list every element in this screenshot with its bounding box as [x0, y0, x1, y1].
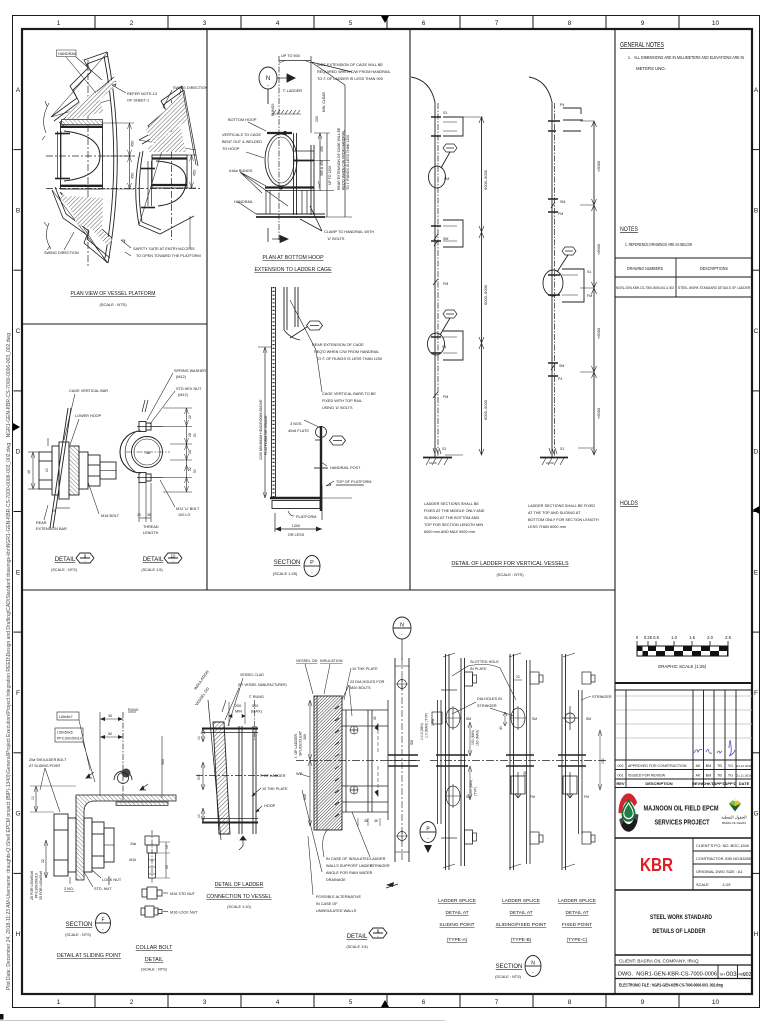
- svg-text:METERS UNO.: METERS UNO.: [636, 66, 666, 71]
- svg-text:FM: FM: [443, 282, 448, 286]
- svg-text:8: 8: [568, 999, 572, 1006]
- svg-text:SERVICES PROJECT: SERVICES PROJECT: [655, 818, 710, 827]
- svg-text:PLATFORM: PLATFORM: [296, 515, 316, 519]
- svg-text:35: 35: [147, 513, 151, 517]
- svg-text:22: 22: [516, 675, 520, 679]
- svg-text:(M12): (M12): [176, 375, 187, 379]
- svg-text:AT THE TOP AND SLIDING AT: AT THE TOP AND SLIDING AT: [528, 511, 581, 515]
- svg-text:20: 20: [52, 509, 56, 513]
- svg-text:22: 22: [188, 467, 192, 471]
- svg-text:CAGE VERTICAL BARS TO BE: CAGE VERTICAL BARS TO BE: [322, 392, 376, 396]
- svg-text:450: 450: [193, 170, 197, 176]
- svg-text:40: 40: [499, 726, 503, 730]
- svg-text:40: 40: [27, 470, 31, 474]
- svg-text:N: N: [531, 961, 535, 967]
- svg-text:DESCRIPTION: DESCRIPTION: [645, 781, 672, 786]
- svg-text:YG: YG: [728, 764, 733, 768]
- svg-text:9: 9: [641, 999, 645, 1006]
- svg-text:SAFETY GATE AT ENTRY/ACCESS: SAFETY GATE AT ENTRY/ACCESS: [133, 247, 195, 251]
- svg-text:6000–9000: 6000–9000: [483, 284, 488, 305]
- svg-text:G: G: [15, 811, 20, 818]
- svg-text:3: 3: [203, 20, 207, 27]
- svg-text:DETAIL: DETAIL: [55, 557, 76, 563]
- svg-text:STD. NUT: STD. NUT: [94, 887, 112, 891]
- svg-text:100 (MIN): 100 (MIN): [469, 780, 473, 795]
- svg-text:150 (MIN): 150 (MIN): [471, 730, 475, 745]
- svg-text:RUNG: RUNG: [128, 708, 139, 712]
- svg-text:VESSEL CLAD: VESSEL CLAD: [240, 673, 264, 677]
- svg-text:IN CASE OF: IN CASE OF: [316, 902, 338, 906]
- svg-text:AK: AK: [696, 774, 701, 778]
- svg-text:WP: WP: [296, 772, 303, 776]
- svg-text:B: B: [754, 207, 758, 214]
- svg-text:CLIENT'S P.O. NO.:BOC-1540: CLIENT'S P.O. NO.:BOC-1540: [696, 843, 750, 848]
- svg-text:2: 2: [130, 20, 134, 27]
- svg-text:A: A: [754, 87, 759, 94]
- svg-text:2 NO.: 2 NO.: [64, 887, 74, 891]
- svg-text:SM: SM: [466, 717, 471, 721]
- svg-text:1:0 (MAX) (TYP): 1:0 (MAX) (TYP): [425, 713, 429, 738]
- svg-text:P4: P4: [560, 103, 564, 107]
- svg-text:15: 15: [165, 845, 169, 849]
- svg-text:21.11.2018: 21.11.2018: [736, 774, 752, 778]
- svg-text:(SCALE : NTS): (SCALE : NTS): [141, 968, 167, 972]
- svg-text:PFC100x50x10: PFC100x50x10: [35, 873, 39, 898]
- svg-text:1. ALL DIMENSIONS ARE IN MIL: 1. ALL DIMENSIONS ARE IN MILLIMETERS AND…: [628, 55, 744, 60]
- svg-text:(SCALE : NTS): (SCALE : NTS): [65, 933, 91, 937]
- svg-text:PLATFORM OR GRADE: PLATFORM OR GRADE: [264, 415, 268, 455]
- svg-text:ISSUED FOR REVIEW: ISSUED FOR REVIEW: [628, 774, 666, 778]
- svg-text:(M12): (M12): [178, 393, 189, 397]
- svg-text:TOP OF PLATFORM: TOP OF PLATFORM: [336, 480, 371, 484]
- svg-text:NGR1-GEN-KBR-CS-7000-0006-001: NGR1-GEN-KBR-CS-7000-0006-001 & 002: [616, 286, 674, 290]
- svg-text:FM: FM: [558, 212, 563, 216]
- svg-text:380 & 450: 380 & 450: [320, 160, 324, 176]
- svg-text:DETAIL OF LADDER: DETAIL OF LADDER: [215, 882, 264, 888]
- svg-text:DWG. NGR1-GEN-KBR-CS-7000-000: DWG. NGR1-GEN-KBR-CS-7000-0006: [618, 972, 717, 978]
- svg-text:(SCALE 1:25): (SCALE 1:25): [273, 571, 298, 576]
- svg-text:2M: 2M: [523, 771, 527, 776]
- svg-text:D: D: [16, 449, 21, 456]
- svg-text:300: 300: [303, 734, 307, 740]
- svg-text:10 THK PLATE: 10 THK PLATE: [262, 787, 288, 791]
- svg-text:ELECTRONIC FILE : NGR1-GEN-KBR: ELECTRONIC FILE : NGR1-GEN-KBR-CS-7000-0…: [619, 983, 723, 988]
- svg-text:POSSIBLE ALTERNATIVE: POSSIBLE ALTERNATIVE: [316, 895, 361, 899]
- svg-text:S1: S1: [560, 447, 564, 451]
- svg-text:50: 50: [193, 469, 197, 473]
- svg-text:H: H: [754, 931, 759, 938]
- svg-text:450: 450: [320, 146, 324, 152]
- svg-text:ℂ RUNG: ℂ RUNG: [249, 695, 264, 699]
- svg-text:(TYPE-A): (TYPE-A): [447, 937, 468, 943]
- svg-text:10: 10: [31, 796, 35, 800]
- svg-text:LADDER SPLICE: LADDER SPLICE: [502, 898, 540, 904]
- svg-text:ℂ OF LADDER: ℂ OF LADDER: [294, 734, 298, 758]
- svg-text:SLIDING POINT: SLIDING POINT: [439, 922, 474, 928]
- svg-text:CAGE VERTICAL BAR: CAGE VERTICAL BAR: [69, 389, 108, 393]
- svg-text:IN CASE OF INSULATED: IN CASE OF INSULATED: [326, 857, 370, 861]
- svg-text:F: F: [101, 918, 104, 924]
- svg-text:STRINGER: STRINGER: [370, 864, 390, 868]
- svg-text:150: 150: [601, 758, 605, 764]
- svg-text:5: 5: [349, 999, 353, 1006]
- svg-text:3: 3: [203, 999, 207, 1006]
- svg-text:BOTTOM ONLY FOR SECTION LENGTH: BOTTOM ONLY FOR SECTION LENGTH: [528, 518, 599, 522]
- svg-text:TB: TB: [717, 764, 722, 768]
- svg-text:FIXED WITH TOP RAIL: FIXED WITH TOP RAIL: [322, 399, 362, 403]
- svg-text:100 LG: 100 LG: [178, 513, 191, 517]
- svg-text:EXTENSION TO LADDER CAGE: EXTENSION TO LADDER CAGE: [254, 267, 332, 273]
- svg-text:002: 002: [743, 972, 752, 978]
- svg-text:SLOTTED HOLE: SLOTTED HOLE: [470, 660, 499, 664]
- svg-text:S1: S1: [442, 447, 446, 451]
- svg-text:UNINSULATED WALLS: UNINSULATED WALLS: [316, 909, 357, 913]
- svg-text:DRAINAGE: DRAINAGE: [326, 878, 346, 882]
- svg-text:D: D: [754, 449, 759, 456]
- svg-text:SPLICE/CLEAT: SPLICE/CLEAT: [299, 730, 303, 756]
- svg-text:LOCK NUT: LOCK NUT: [102, 878, 122, 882]
- svg-text:<6000: <6000: [596, 160, 601, 172]
- svg-text:UP TO 500: UP TO 500: [281, 54, 300, 58]
- svg-text:0.25: 0.25: [644, 635, 653, 640]
- svg-text:SLIDING/FIXED POINT: SLIDING/FIXED POINT: [496, 922, 547, 928]
- svg-text:ℂ LADDER: ℂ LADDER: [283, 89, 302, 93]
- svg-text:BASRA OIL FIELDS: BASRA OIL FIELDS: [722, 821, 746, 825]
- svg-text:DETAIL AT SLIDING POINT: DETAIL AT SLIDING POINT: [57, 953, 122, 959]
- svg-text:SWING DIRECTION: SWING DIRECTION: [173, 86, 208, 90]
- svg-text:TO HOOP: TO HOOP: [222, 147, 240, 151]
- svg-text:STEEL WORK STANDARD DETAILS OF: STEEL WORK STANDARD DETAILS OF LADDER: [678, 286, 751, 290]
- svg-text:20: 20: [137, 513, 141, 517]
- svg-text:DETAIL AT: DETAIL AT: [445, 910, 468, 916]
- svg-text:MIN: MIN: [235, 710, 242, 714]
- svg-text:APP'D: APP'D: [724, 781, 736, 786]
- svg-text:S1: S1: [443, 111, 447, 115]
- svg-text:(SCALE : NTS): (SCALE : NTS): [51, 568, 77, 572]
- svg-text:500: 500: [161, 759, 165, 765]
- svg-text:NOTES: NOTES: [620, 226, 639, 233]
- svg-text:M16 BOLT: M16 BOLT: [101, 514, 120, 518]
- svg-text:LADDER SECTIONS SHALL BE: LADDER SECTIONS SHALL BE: [424, 502, 479, 506]
- svg-text:(SCALE : NTS): (SCALE : NTS): [99, 302, 127, 307]
- svg-text:35: 35: [364, 819, 368, 823]
- svg-text:REAR: REAR: [36, 521, 47, 525]
- svg-text:4: 4: [276, 999, 280, 1006]
- svg-text:1.5: 1.5: [689, 635, 695, 640]
- svg-text:40x6 FLATS: 40x6 FLATS: [288, 429, 309, 433]
- svg-text:0.5: 0.5: [653, 635, 659, 640]
- svg-text:S1: S1: [442, 345, 446, 349]
- svg-text:REAR EXTENSION OF CAGE WILL BE: REAR EXTENSION OF CAGE WILL BE: [337, 127, 341, 190]
- svg-text:24.12.2018: 24.12.2018: [736, 764, 752, 768]
- svg-text:PFC100x50x10: PFC100x50x10: [57, 737, 82, 741]
- svg-text:6: 6: [422, 999, 426, 1006]
- svg-text:DATE: DATE: [739, 781, 750, 786]
- svg-text:HANDRAIL: HANDRAIL: [234, 200, 253, 204]
- svg-text:LADDER SECTIONS SHALL BE FIXED: LADDER SECTIONS SHALL BE FIXED: [528, 504, 595, 508]
- svg-text:AT SLIDING POINT: AT SLIDING POINT: [29, 764, 61, 768]
- svg-text:FM: FM: [444, 177, 449, 181]
- svg-text:<6000: <6000: [596, 327, 601, 339]
- svg-text:L50x50x6: L50x50x6: [57, 731, 73, 735]
- svg-text:TO ℂ RUNGS IS LESS THAN 1200: TO ℂ RUNGS IS LESS THAN 1200: [346, 135, 350, 190]
- svg-text:STRINGER: STRINGER: [477, 704, 497, 708]
- svg-text:002: 002: [618, 764, 624, 768]
- svg-text:SM: SM: [586, 717, 591, 721]
- svg-text:FM: FM: [443, 395, 448, 399]
- svg-text:TO ℂ OF RUNGS IS LESS THAN 120: TO ℂ OF RUNGS IS LESS THAN 1200: [316, 357, 382, 361]
- svg-text:35 FOR L65x65x6: 35 FOR L65x65x6: [39, 871, 43, 900]
- svg-text:ORIGINAL DWG SIZE : A1: ORIGINAL DWG SIZE : A1: [696, 869, 743, 874]
- svg-text:40: 40: [373, 716, 377, 720]
- svg-text:F: F: [16, 690, 20, 697]
- svg-text:AK: AK: [696, 764, 701, 768]
- svg-text:REQ'D WHEN C/W FROM HANDRAIL: REQ'D WHEN C/W FROM HANDRAIL: [342, 130, 346, 190]
- svg-text:LADDER SPLICE: LADDER SPLICE: [558, 898, 596, 904]
- svg-text:(MAX): (MAX): [251, 710, 262, 714]
- svg-text:±0.00: ±0.00: [546, 461, 554, 465]
- svg-text:USING 'U' BOLTS: USING 'U' BOLTS: [322, 406, 353, 410]
- svg-text:C: C: [754, 328, 759, 335]
- svg-text:LENGTH: LENGTH: [143, 531, 159, 535]
- svg-text:PLAN AT BOTTOM HOOP: PLAN AT BOTTOM HOOP: [262, 255, 324, 261]
- svg-text:28 FOR L50x50x6: 28 FOR L50x50x6: [30, 871, 34, 900]
- svg-text:1: 1: [57, 999, 61, 1006]
- svg-text:500: 500: [197, 774, 201, 780]
- svg-text:9: 9: [641, 20, 645, 27]
- svg-text:35: 35: [374, 819, 378, 823]
- svg-text:M20 BOLTS: M20 BOLTS: [350, 686, 371, 690]
- svg-text:6000 mm AND MAX 9000 mm: 6000 mm AND MAX 9000 mm: [424, 530, 475, 534]
- svg-text:BOTTOM HOOP: BOTTOM HOOP: [228, 118, 257, 122]
- svg-text:450: 450: [131, 173, 135, 179]
- svg-text:STEEL WORK STANDARD: STEEL WORK STANDARD: [650, 914, 712, 921]
- svg-text:H: H: [16, 931, 21, 938]
- svg-text:6000–9000: 6000–9000: [483, 169, 488, 190]
- svg-text:REAR EXTENSION OF CAGE: REAR EXTENSION OF CAGE: [312, 343, 364, 347]
- svg-text:<6000: <6000: [596, 407, 601, 419]
- svg-text:M16 STD NUT: M16 STD NUT: [170, 892, 196, 896]
- svg-text:160 (MAX): 160 (MAX): [476, 730, 480, 746]
- svg-text:DETAIL AT: DETAIL AT: [509, 910, 532, 916]
- svg-text:FM: FM: [584, 795, 589, 799]
- svg-text:SCALE :1:25: SCALE :1:25: [696, 882, 730, 887]
- svg-text:10: 10: [712, 999, 720, 1006]
- svg-text:FIXED AT THE MIDDLE ONLY AND: FIXED AT THE MIDDLE ONLY AND: [424, 509, 485, 513]
- svg-text:(BY VESSEL MANUFACTURER): (BY VESSEL MANUFACTURER): [238, 683, 287, 687]
- svg-text:INSULATION: INSULATION: [320, 659, 343, 663]
- svg-text:(SCALE 1:5): (SCALE 1:5): [141, 568, 163, 572]
- svg-text:10 THK PLATE: 10 THK PLATE: [352, 667, 378, 671]
- svg-text:F: F: [754, 690, 758, 697]
- svg-text:(SCALE : NTS): (SCALE : NTS): [495, 975, 521, 979]
- svg-text:(TYPE-B): (TYPE-B): [511, 937, 532, 943]
- svg-text:N: N: [400, 623, 404, 629]
- svg-text:HOOP: HOOP: [264, 804, 276, 808]
- svg-text:1. REFERENCE DRAWINGS ARE AS B: 1. REFERENCE DRAWINGS ARE AS BELOW: [625, 242, 692, 247]
- svg-text:THREAD: THREAD: [143, 525, 159, 529]
- svg-text:SH: SH: [720, 973, 725, 977]
- svg-text:BM: BM: [706, 774, 711, 778]
- svg-text:OR LESS: OR LESS: [288, 533, 305, 537]
- svg-text:DETAIL OF LADDER FOR VERTICAL: DETAIL OF LADDER FOR VERTICAL VESSELS: [451, 561, 569, 567]
- svg-text:TOP FOR SECTION LENGTH MIN: TOP FOR SECTION LENGTH MIN: [424, 523, 483, 527]
- svg-text:DETAILS OF LADDER: DETAILS OF LADDER: [653, 928, 706, 935]
- svg-text:50: 50: [108, 732, 112, 736]
- svg-text:'U' BOLTS: 'U' BOLTS: [327, 237, 345, 241]
- svg-text:SWING DIRECTION: SWING DIRECTION: [44, 251, 79, 255]
- svg-text:FM: FM: [587, 294, 592, 298]
- svg-text:YG: YG: [728, 774, 733, 778]
- svg-text:E: E: [16, 569, 21, 576]
- svg-text:#16ø RUNGS: #16ø RUNGS: [229, 169, 253, 173]
- svg-text:EXTENSION BAR: EXTENSION BAR: [36, 527, 67, 531]
- svg-text:50: 50: [193, 433, 197, 437]
- svg-text:VESSEL OD: VESSEL OD: [296, 659, 318, 663]
- svg-text:8: 8: [568, 20, 572, 27]
- svg-text:SM: SM: [559, 364, 564, 368]
- svg-text:2: 2: [130, 999, 134, 1006]
- svg-text:REQ'D WHEN C/W FROM HANDRAIL: REQ'D WHEN C/W FROM HANDRAIL: [314, 350, 379, 354]
- svg-text:TO OPEN TOWARD THE PLATFORM: TO OPEN TOWARD THE PLATFORM: [136, 254, 201, 258]
- svg-text:STD HEX NUT: STD HEX NUT: [176, 387, 202, 391]
- svg-text:35: 35: [165, 865, 169, 869]
- svg-text:2.0: 2.0: [707, 635, 713, 640]
- svg-text:(TYPE-C): (TYPE-C): [567, 937, 588, 943]
- svg-text:10: 10: [197, 814, 201, 818]
- svg-text:DESCRIPTIONS: DESCRIPTIONS: [700, 266, 728, 271]
- svg-text:A: A: [16, 87, 21, 94]
- svg-text:10: 10: [712, 20, 720, 27]
- svg-text:FM: FM: [530, 795, 535, 799]
- svg-text:1 PA: 1 PA: [431, 718, 435, 726]
- svg-text:LESS THAN 6000 mm: LESS THAN 6000 mm: [528, 525, 566, 529]
- svg-text:S1: S1: [587, 270, 591, 274]
- svg-text:STRINGER: STRINGER: [592, 695, 612, 699]
- svg-text:L65x6x7: L65x6x7: [59, 715, 73, 719]
- svg-text:REFER NOTE-13: REFER NOTE-13: [127, 92, 157, 96]
- svg-text:GENERAL NOTES: GENERAL NOTES: [620, 42, 664, 49]
- svg-text:GRAPHIC SCALE (1:25): GRAPHIC SCALE (1:25): [658, 664, 707, 669]
- svg-text:1:0.3 (MIN): 1:0.3 (MIN): [420, 723, 424, 740]
- svg-text:22 DIA HOLES FOR: 22 DIA HOLES FOR: [350, 680, 385, 684]
- svg-text:P4: P4: [558, 377, 562, 381]
- svg-text:LOWER HOOP: LOWER HOOP: [75, 414, 102, 418]
- svg-text:5: 5: [349, 20, 353, 27]
- svg-text:DETAIL AT: DETAIL AT: [565, 910, 588, 916]
- svg-text:ℂ OF LADDER: ℂ OF LADDER: [260, 774, 286, 778]
- svg-text:Plot Date: December 24, 2018-1: Plot Date: December 24, 2018-11:23 AM-Us…: [6, 333, 12, 990]
- svg-text:OF SHEET-1: OF SHEET-1: [127, 99, 149, 103]
- svg-text:VERTICALS TO CAGE: VERTICALS TO CAGE: [222, 133, 262, 137]
- svg-text:CONTRACTOR JOB NO:83265: CONTRACTOR JOB NO:83265: [696, 856, 751, 861]
- svg-text:DIA HOLES IN: DIA HOLES IN: [477, 697, 502, 701]
- svg-text:28: 28: [188, 450, 192, 454]
- svg-text:SLIDING AT THE BOTTOM AND: SLIDING AT THE BOTTOM AND: [424, 516, 479, 520]
- svg-text:CLAMP TO HANDRAIL WITH: CLAMP TO HANDRAIL WITH: [324, 230, 374, 234]
- svg-text:CONNECTION TO VESSEL: CONNECTION TO VESSEL: [207, 894, 272, 900]
- svg-text:TO ℂ OF LADDER IS LESS THAN 90: TO ℂ OF LADDER IS LESS THAN 900: [317, 77, 383, 81]
- svg-text:4: 4: [276, 20, 280, 27]
- svg-text:SECTION: SECTION: [496, 964, 523, 970]
- svg-text:C: C: [16, 328, 21, 335]
- svg-text:200: 200: [235, 704, 241, 708]
- svg-text:REQUIRED WHEN C/W FROM HANDRAI: REQUIRED WHEN C/W FROM HANDRAIL: [317, 70, 391, 74]
- svg-text:M16 LOCK NUT: M16 LOCK NUT: [170, 911, 198, 915]
- svg-text:CLIENT: BASRA OIL COMPANY, IRA: CLIENT: BASRA OIL COMPANY, IRAQ: [619, 959, 699, 964]
- svg-text:WALLS SUPPORT UNDER: WALLS SUPPORT UNDER: [326, 864, 373, 868]
- svg-text:HANDRAIL: HANDRAIL: [58, 52, 77, 56]
- svg-text:003: 003: [726, 971, 737, 978]
- svg-text:LADDER SPLICE: LADDER SPLICE: [438, 898, 476, 904]
- svg-text:MIN. CLEAR: MIN. CLEAR: [322, 91, 326, 112]
- svg-text:20ø: 20ø: [130, 842, 136, 846]
- svg-text:UP TO 1200: UP TO 1200: [328, 166, 332, 185]
- svg-text:20: 20: [45, 468, 49, 472]
- svg-text:REV: REV: [616, 781, 625, 786]
- svg-text:3 NOS.: 3 NOS.: [290, 422, 302, 426]
- svg-text:2.5: 2.5: [725, 635, 731, 640]
- svg-text:22: 22: [41, 859, 45, 863]
- svg-text:22: 22: [188, 415, 192, 419]
- svg-text:SM: SM: [410, 740, 414, 745]
- svg-text:HOLDS: HOLDS: [620, 501, 638, 507]
- svg-text:BENT OUT & WELDED: BENT OUT & WELDED: [222, 140, 262, 144]
- svg-text:APPROVED FOR CONSTRUCTION: APPROVED FOR CONSTRUCTION: [628, 764, 687, 768]
- svg-text:P: P: [310, 560, 314, 566]
- svg-text:SECTION: SECTION: [66, 922, 93, 928]
- svg-text:DETAIL: DETAIL: [143, 557, 164, 563]
- svg-text:DRAWING NUMBERS: DRAWING NUMBERS: [627, 266, 663, 271]
- svg-text:±0.00: ±0.00: [429, 461, 437, 465]
- svg-text:SPRING WASHER: SPRING WASHER: [174, 369, 206, 373]
- svg-text:HANDRAIL POST: HANDRAIL POST: [330, 466, 361, 470]
- svg-text:20ø SHOULDER BOLT: 20ø SHOULDER BOLT: [29, 758, 67, 762]
- svg-text:<6000: <6000: [596, 243, 601, 255]
- svg-text:75ø: 75ø: [144, 451, 150, 455]
- svg-text:COLLAR BOLT: COLLAR BOLT: [136, 945, 173, 951]
- svg-text:(TYP): (TYP): [474, 787, 478, 796]
- svg-text:10: 10: [197, 736, 201, 740]
- svg-text:SIDE EXTENSION OF CAGE WILL BE: SIDE EXTENSION OF CAGE WILL BE: [317, 63, 383, 67]
- svg-text:N: N: [266, 76, 270, 82]
- svg-text:1200: 1200: [292, 524, 300, 528]
- svg-text:200: 200: [315, 116, 319, 122]
- svg-text:(SCALE : NTS): (SCALE : NTS): [496, 572, 524, 577]
- svg-text:1: 1: [57, 20, 61, 27]
- svg-text:FIXED POINT: FIXED POINT: [562, 922, 592, 928]
- svg-text:M12 'U' BOLT: M12 'U' BOLT: [176, 507, 200, 511]
- svg-text:E: E: [754, 569, 759, 576]
- svg-text:الحقول النفطية: الحقول النفطية: [721, 815, 746, 820]
- svg-text:SM: SM: [532, 717, 537, 721]
- svg-text:500: 500: [252, 704, 258, 708]
- svg-text:1.0: 1.0: [671, 635, 677, 640]
- svg-text:7: 7: [495, 20, 499, 27]
- svg-text:KBR: KBR: [640, 855, 673, 875]
- svg-text:7: 7: [495, 999, 499, 1006]
- svg-text:TB: TB: [717, 774, 722, 778]
- svg-text:001: 001: [618, 774, 624, 778]
- svg-text:6: 6: [422, 20, 426, 27]
- svg-text:M16: M16: [129, 858, 136, 862]
- svg-text:ANGLE FOR RAIN WATER: ANGLE FOR RAIN WATER: [326, 871, 373, 875]
- svg-text:35: 35: [108, 714, 112, 718]
- svg-text:SM: SM: [560, 200, 565, 204]
- svg-text:450: 450: [131, 141, 135, 147]
- svg-text:SECTION: SECTION: [274, 560, 301, 566]
- svg-text:IN PLATE: IN PLATE: [470, 667, 487, 671]
